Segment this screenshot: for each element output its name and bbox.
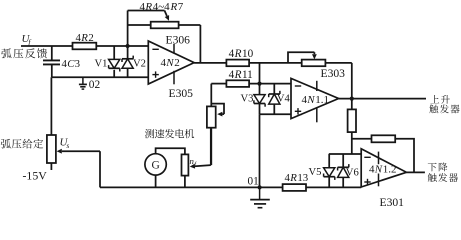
label 弧压给定 bbox=[1, 139, 43, 149]
label 4R2 bbox=[76, 32, 94, 44]
svg-text:02: 02 bbox=[89, 79, 101, 91]
label V5 bbox=[309, 167, 322, 178]
label 4N1.1 bbox=[302, 94, 330, 106]
label 4R11 bbox=[229, 69, 253, 81]
pin minus 4N1.1 bbox=[295, 85, 301, 87]
wire wiper arrow 4R4-4R7 bbox=[165, 11, 170, 21]
op-amp 4N1.2 bbox=[361, 149, 406, 187]
wire feedback drop bbox=[199, 25, 201, 62]
wire pot4 wiper arrow bbox=[217, 112, 224, 117]
zener V6 bbox=[338, 164, 349, 177]
pin V+ 4N2 bbox=[173, 44, 175, 54]
potentiometer 4N1.1 feedback bbox=[302, 60, 326, 67]
svg-text:N: N bbox=[165, 57, 174, 69]
pin plus 4N2 bbox=[152, 71, 158, 77]
svg-text:V1: V1 bbox=[95, 59, 108, 70]
wire 4N1.1 output bbox=[339, 98, 426, 100]
zener V2 bbox=[122, 56, 133, 69]
svg-text:2: 2 bbox=[174, 57, 180, 69]
wire node A vertical bbox=[259, 63, 261, 84]
resistor 4R11 bbox=[226, 80, 249, 87]
wire V2 stubs bbox=[127, 46, 129, 77]
svg-text:E305: E305 bbox=[169, 87, 194, 100]
pin V- 4N1.2 bbox=[378, 174, 380, 187]
svg-text:1.1: 1.1 bbox=[315, 94, 329, 106]
wire 4R11 left bbox=[211, 83, 226, 85]
svg-text:R: R bbox=[144, 1, 152, 13]
wire 4R2 to summing node bbox=[96, 45, 148, 47]
wire pot right bbox=[179, 24, 201, 26]
label V3 bbox=[241, 94, 254, 105]
wire Us wiper bbox=[57, 149, 100, 188]
resistor 4N1.2 input bbox=[348, 109, 356, 132]
wire G top loop bbox=[156, 148, 185, 154]
svg-text:s: s bbox=[66, 141, 69, 150]
wire 4N1.2 output bbox=[406, 171, 425, 173]
node Uf label bbox=[22, 33, 32, 46]
label 下降 bbox=[428, 163, 448, 172]
node A junction bbox=[257, 82, 261, 86]
svg-text:E303: E303 bbox=[321, 67, 346, 80]
svg-text:13: 13 bbox=[297, 172, 308, 184]
resistor 4R13 bbox=[283, 184, 306, 191]
ground 02 bbox=[79, 77, 87, 89]
label V1 bbox=[95, 59, 108, 70]
wire input resistor down bbox=[351, 132, 353, 154]
capacitor 4C3 bbox=[43, 60, 60, 64]
wire V5 stubs bbox=[328, 154, 330, 187]
potentiometer tacho bbox=[182, 154, 189, 175]
label V2 bbox=[133, 59, 146, 70]
wire pot2 wiper arrow bbox=[312, 52, 317, 59]
wire feedback right 4N1.2 bbox=[395, 139, 414, 173]
svg-text:1.2: 1.2 bbox=[383, 163, 397, 175]
wire pot4 wiper loop bbox=[211, 104, 224, 115]
wire nf wiper bbox=[190, 128, 211, 169]
wire node A to minus input bbox=[249, 83, 291, 85]
node summing junction bbox=[126, 44, 130, 48]
zener V5 bbox=[324, 168, 335, 180]
svg-text:11: 11 bbox=[242, 69, 253, 81]
svg-text:01: 01 bbox=[248, 176, 259, 188]
wire pot given top bbox=[50, 77, 52, 135]
label 测速发电机 bbox=[145, 129, 194, 138]
wire to input resistor bbox=[351, 99, 353, 110]
svg-text:V6: V6 bbox=[346, 167, 359, 178]
pin plus 4N1.1 bbox=[295, 108, 301, 114]
label 触发器 upper bbox=[429, 104, 459, 113]
label V6 bbox=[346, 167, 359, 178]
svg-text:E301: E301 bbox=[380, 196, 405, 209]
svg-text:V3: V3 bbox=[241, 94, 254, 105]
label V4 bbox=[277, 94, 291, 105]
svg-text:7: 7 bbox=[178, 1, 184, 13]
pin V- 4N2 bbox=[173, 71, 175, 85]
pin minus 4N2 bbox=[152, 48, 158, 50]
label 4N1.2 bbox=[369, 163, 397, 175]
wire V1 stubs bbox=[113, 46, 115, 77]
svg-text:R: R bbox=[80, 32, 88, 44]
wire Uf input bbox=[21, 45, 73, 47]
pin V+ 4N1.1 bbox=[316, 81, 318, 91]
wire feedback top bbox=[128, 10, 165, 12]
label 触发器 lower bbox=[428, 173, 458, 182]
label Us bbox=[60, 137, 70, 150]
resistor 4R10 bbox=[226, 60, 249, 67]
svg-text:V5: V5 bbox=[309, 167, 322, 178]
label 01 bbox=[248, 176, 259, 188]
label 4R10 bbox=[229, 48, 254, 60]
wire 4R10 to feedback run bbox=[249, 62, 352, 64]
potentiometer 4R4~4R7 bbox=[151, 22, 179, 29]
wire feedback riser bbox=[127, 11, 129, 47]
wire pot given bottom stub bbox=[50, 163, 52, 170]
wire 02 rail bbox=[52, 76, 149, 78]
svg-text:E306: E306 bbox=[166, 34, 191, 47]
wire pot2 wiper loop bbox=[288, 52, 314, 63]
node 01 junction bbox=[258, 185, 262, 189]
wire 01 rail bbox=[100, 186, 361, 188]
zener V4 bbox=[269, 91, 280, 104]
wire 4N2 output bbox=[194, 62, 226, 64]
wire pot4 top bbox=[210, 84, 212, 107]
wire feedback drop to output 4N1.1 bbox=[351, 63, 353, 99]
zener V1 bbox=[109, 59, 120, 71]
label E301 bbox=[380, 196, 405, 209]
wire G bottom bbox=[155, 175, 157, 187]
label 4R13 bbox=[285, 172, 309, 184]
op-amp 4N1.1 bbox=[291, 78, 339, 118]
svg-text:V2: V2 bbox=[133, 59, 146, 70]
label 4N2 bbox=[161, 57, 180, 69]
label 4C3 bbox=[62, 58, 81, 70]
potentiometer speed set bbox=[207, 106, 216, 127]
svg-text:4~4: 4~4 bbox=[153, 1, 170, 13]
svg-text:N: N bbox=[306, 94, 315, 106]
wire V3 stubs bbox=[259, 84, 261, 115]
pin plus 4N1.2 bbox=[364, 179, 370, 185]
svg-text:-15V: -15V bbox=[23, 168, 48, 182]
svg-text:G: G bbox=[151, 160, 159, 172]
label E303 bbox=[321, 67, 346, 80]
label 4R4~4R7 bbox=[140, 1, 184, 13]
node output 4N1.1 bbox=[350, 97, 354, 101]
pin V- 4N1.1 bbox=[316, 108, 318, 123]
wire V4 stubs bbox=[273, 84, 275, 115]
wire tacho pot bottom bbox=[184, 176, 186, 188]
label nf bbox=[190, 156, 198, 168]
pin V+ 4N1.2 bbox=[378, 152, 380, 165]
label E305 bbox=[169, 87, 194, 100]
svg-text:R: R bbox=[234, 69, 242, 81]
pin minus 4N1.2 bbox=[364, 156, 370, 158]
wire pot4 bottom bbox=[210, 128, 212, 165]
label E306 bbox=[166, 34, 191, 47]
wire plus rail 4N1.1 bbox=[260, 113, 302, 115]
net label 弧压反馈 bbox=[1, 48, 47, 58]
svg-text:2: 2 bbox=[88, 32, 93, 44]
label 上升 bbox=[430, 95, 449, 104]
wire pot left bbox=[128, 24, 151, 26]
wire feedback left 4N1.2 bbox=[352, 138, 372, 140]
wire 4C3 branch upper bbox=[51, 46, 53, 60]
svg-text:V4: V4 bbox=[277, 94, 291, 105]
generator G bbox=[145, 154, 166, 175]
zener V3 bbox=[254, 95, 265, 107]
resistor 4N1.2 feedback bbox=[372, 135, 396, 142]
wire minus line 4N1.2 bbox=[329, 153, 361, 155]
wire 4C3 branch lower bbox=[51, 64, 53, 77]
label -15V bbox=[23, 168, 48, 182]
svg-text:R: R bbox=[289, 172, 297, 184]
wire V6 stubs bbox=[342, 154, 344, 187]
svg-text:10: 10 bbox=[242, 48, 254, 60]
ground 01 bbox=[250, 187, 270, 207]
op-amp 4N2 bbox=[148, 41, 194, 84]
svg-text:R: R bbox=[170, 1, 178, 13]
svg-text:R: R bbox=[234, 48, 242, 60]
svg-text:3: 3 bbox=[75, 58, 80, 70]
wire V3 branch to 01 bbox=[259, 114, 261, 187]
resistor 4R2 bbox=[73, 43, 97, 50]
label 02 bbox=[89, 79, 101, 91]
potentiometer 弧压给定 bbox=[47, 135, 56, 163]
